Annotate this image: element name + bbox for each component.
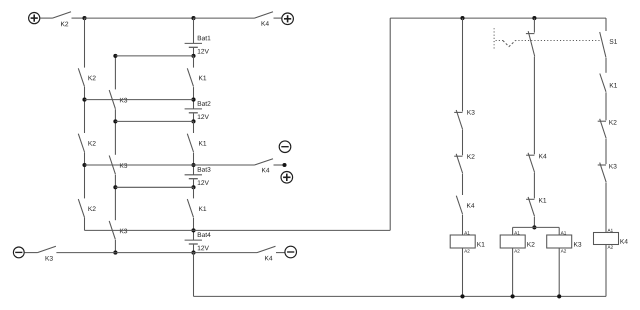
wire (558, 248, 560, 296)
terminal - (bottom left) (13, 247, 24, 258)
node junction C top (191, 98, 195, 102)
label Bat3 (198, 167, 211, 172)
contact K1 (column E, NC) (526, 198, 534, 200)
contact K4 (column D, NO) (456, 196, 462, 214)
wire (462, 18, 464, 111)
wire (56, 252, 115, 254)
battery Bat3 (185, 174, 202, 176)
label K1 (199, 141, 206, 146)
label K2 (527, 242, 534, 247)
label 12V (198, 246, 209, 251)
contact K2 (column A row 3, NO) (78, 199, 84, 217)
contact K1 (column C row 2, NO) (187, 134, 193, 152)
node junction A (82, 98, 86, 102)
contact K3 (bottom left, NO) (37, 246, 56, 252)
pin A1 (608, 229, 613, 232)
pin A1 (514, 231, 519, 234)
wire (115, 186, 193, 188)
wire (40, 17, 53, 19)
contact K3 (column B row 2, NO) (109, 156, 115, 175)
wire (72, 17, 85, 19)
label K3 (467, 110, 474, 115)
terminal - (bottom right) (285, 246, 297, 258)
wire (25, 252, 38, 254)
wire (462, 174, 464, 195)
wire (194, 17, 255, 19)
wire (512, 248, 514, 296)
label K1 (539, 198, 546, 203)
label K3 (574, 242, 581, 247)
wire (194, 252, 258, 254)
coil K2 (500, 235, 525, 248)
node junction C bottom 1 (191, 54, 195, 58)
label 12V (198, 114, 209, 119)
label S1 (610, 39, 617, 44)
contact K2 (column F, NC) (598, 120, 606, 122)
node junction C bottom 4 (191, 251, 195, 255)
node junction A (82, 163, 86, 167)
label K4 (620, 239, 627, 244)
wire (193, 48, 195, 56)
wire (114, 109, 116, 155)
pin A2 (608, 245, 613, 248)
terminal + (middle lower) (281, 172, 293, 184)
node junction top-A (82, 16, 86, 20)
wire (533, 217, 535, 227)
label K2 (467, 154, 474, 159)
label K4 (265, 256, 272, 261)
node junction C top (191, 228, 195, 232)
wire (513, 226, 535, 228)
wire (274, 17, 282, 19)
wire (84, 152, 86, 198)
wire (85, 17, 194, 19)
terminal + (top right) (282, 13, 294, 25)
battery Bat2 (185, 108, 202, 110)
contact K2 (top, NO) (53, 12, 72, 18)
wire (193, 218, 195, 231)
switch S1 pole 2 (NO) (600, 32, 606, 58)
wire (193, 87, 195, 100)
contact K2 (column D, NC) (454, 155, 462, 157)
wire (558, 227, 560, 235)
contact K1 (column F, NO) (600, 74, 606, 92)
wire (193, 56, 195, 68)
node junction C bottom 2 (191, 119, 195, 123)
pin A2 (561, 249, 566, 252)
wire (194, 229, 391, 231)
label K4 (539, 154, 546, 159)
label K3 (120, 229, 127, 234)
wire (85, 229, 194, 231)
wire (533, 173, 535, 199)
wire (115, 55, 193, 57)
node junction B (113, 251, 117, 255)
label K2 (88, 206, 95, 211)
label K2 (609, 120, 616, 125)
wire (534, 226, 559, 228)
wire (193, 230, 195, 240)
wire (114, 240, 116, 253)
wire (193, 165, 195, 175)
contact K3 (column F, NC) (598, 164, 606, 166)
wire (193, 153, 195, 166)
pin A2 (514, 249, 519, 252)
wire (533, 57, 535, 155)
label K1 (610, 83, 617, 88)
label K3 (46, 256, 53, 261)
wire (193, 179, 195, 187)
wire (84, 87, 86, 133)
wire (605, 245, 607, 297)
contact K2 (column A row 1, NO) (78, 68, 84, 86)
label K1 (477, 242, 484, 247)
node junction bus K3 (557, 294, 561, 298)
contact K1 (column C row 1, NO) (187, 68, 193, 86)
coil K4 (594, 233, 619, 245)
wire (605, 183, 607, 233)
node junction B (113, 119, 117, 123)
wire (85, 164, 194, 166)
wire (114, 175, 116, 221)
label K1 (199, 76, 206, 81)
wire (193, 245, 195, 253)
switch S1 actuator (dotted linkage) (493, 28, 495, 49)
node junction C bottom 3 (191, 185, 195, 189)
node junction top-C (191, 16, 195, 20)
wire (389, 18, 391, 230)
label K2 (61, 22, 68, 27)
label K4 (467, 203, 474, 208)
battery Bat1 (185, 42, 202, 44)
contact K3 (column D, NC) (454, 111, 462, 113)
label K1 (199, 206, 206, 211)
pin A1 (561, 231, 566, 234)
wire (115, 252, 193, 254)
wire (274, 164, 285, 166)
coil K3 (547, 235, 572, 248)
label K3 (609, 164, 616, 169)
wire (114, 56, 116, 90)
wire (462, 215, 464, 236)
terminal - (middle upper) (279, 141, 291, 153)
terminal + (top left) (29, 13, 40, 24)
node junction bus K2 (511, 294, 515, 298)
label 12V (198, 180, 209, 185)
pin A1 (464, 231, 469, 234)
node junction bus K1 (460, 294, 464, 298)
label Bat1 (198, 36, 211, 41)
node junction mid output (282, 163, 286, 167)
contact K4 (column E, NC) (526, 154, 534, 156)
node junction B (113, 185, 117, 189)
label K3 (120, 98, 127, 103)
label K2 (88, 76, 95, 81)
label K4 (262, 21, 269, 26)
wire (194, 164, 255, 166)
label K2 (88, 141, 95, 146)
label Bat4 (198, 232, 211, 237)
wire (193, 187, 195, 198)
node junction coil branch (532, 225, 536, 229)
label K3 (120, 163, 127, 168)
wire (276, 252, 285, 254)
wire (85, 99, 194, 101)
wire (533, 18, 535, 32)
contact K1 (column C row 3, NO) (187, 199, 193, 217)
pin A2 (464, 249, 469, 252)
contact K4 (top, NO) (255, 12, 274, 18)
node junction B (113, 54, 117, 58)
label 12V (198, 49, 209, 54)
wire (84, 18, 86, 68)
coil K1 (450, 235, 475, 248)
wire (605, 92, 607, 120)
node junction top-D (460, 16, 464, 20)
wire (194, 295, 607, 297)
wire (512, 227, 514, 235)
node junction C top (191, 163, 195, 167)
contact K4 (bottom right, NO) (257, 246, 276, 252)
wire (462, 130, 464, 155)
wire (193, 18, 195, 43)
wire (193, 121, 195, 133)
label Bat2 (198, 101, 211, 106)
contact K3 (column B row 3, NO) (109, 221, 115, 240)
label K4 (262, 168, 269, 173)
wire (193, 113, 195, 121)
wire (193, 100, 195, 109)
wire (462, 248, 464, 296)
wire (390, 17, 606, 19)
wire (193, 253, 195, 297)
wire (605, 139, 607, 164)
contact K4 (middle output, NO) (255, 159, 274, 165)
wire (84, 218, 86, 231)
wire (605, 18, 607, 31)
contact K2 (column A row 2, NO) (78, 134, 84, 152)
node junction top-E (532, 16, 536, 20)
wire (115, 120, 193, 122)
battery Bat4 (185, 239, 202, 241)
contact K3 (column B row 1, NO) (109, 90, 115, 109)
wire (605, 58, 607, 73)
switch S1 pole 1 (NC) (526, 33, 535, 35)
